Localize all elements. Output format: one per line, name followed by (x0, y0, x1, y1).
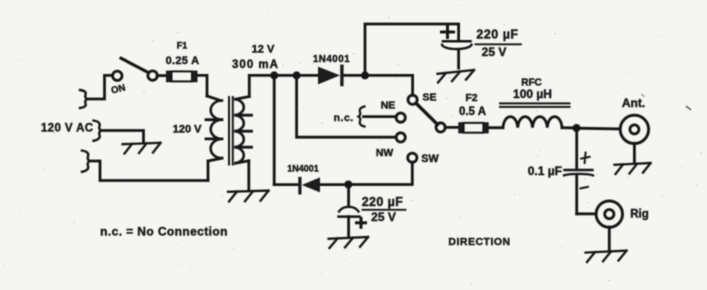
wire (101, 131, 144, 143)
diode D1 1N4001 (318, 65, 344, 87)
switch S2 terminal NW (396, 133, 405, 142)
svg-text:F1: F1 (177, 41, 188, 51)
capacitor C1 220uF 25V (442, 41, 472, 68)
transformer T1 secondary winding (236, 75, 252, 189)
wire (577, 127, 621, 130)
svg-text:Ant.: Ant. (622, 96, 645, 110)
ground (Rig) (586, 251, 627, 262)
svg-text:25 V: 25 V (482, 45, 507, 59)
ground (transformer secondary) (228, 191, 269, 202)
switch S2 terminal SW (408, 153, 417, 162)
switch S1 terminal A (113, 71, 122, 80)
AC plug prong (hot) (80, 90, 87, 108)
node (junction to NW wire) (293, 71, 301, 79)
svg-text:SE: SE (422, 92, 436, 104)
wire (344, 74, 412, 77)
svg-text:300 mA: 300 mA (232, 59, 279, 71)
node (junction to negative rectifier) (270, 71, 278, 79)
C3 polarity mark plus (581, 153, 589, 163)
svg-text:n.c.: n.c. (334, 112, 354, 124)
transformer T1 core (229, 97, 233, 165)
transformer T1 primary winding (206, 101, 222, 181)
wire (Rig stem) (608, 227, 611, 251)
switch S1 terminal B (148, 71, 157, 80)
connector J1 Ant (620, 115, 648, 143)
svg-text:1N4001: 1N4001 (313, 54, 350, 65)
svg-text:25 V: 25 V (371, 210, 396, 224)
inductor RFC 100uH (500, 103, 570, 127)
node (antenna junction) (573, 124, 581, 132)
ground (AC input) (123, 143, 161, 154)
wire (87, 75, 113, 99)
wire (secondary top rail) (249, 74, 318, 77)
fuse F2 (458, 122, 488, 133)
svg-text:Rig: Rig (630, 209, 649, 221)
wire (pole to F2) (445, 126, 458, 129)
ground (Ant) (615, 163, 651, 174)
wire (297, 75, 397, 137)
wire (Ant stem) (633, 143, 636, 162)
wire (489, 126, 503, 129)
svg-text:n.c. = No Connection: n.c. = No Connection (100, 225, 228, 239)
switch S2 pole (436, 123, 445, 132)
svg-text:NE: NE (381, 100, 396, 112)
svg-text:120 V: 120 V (173, 124, 202, 136)
svg-text:F2: F2 (465, 92, 477, 104)
capacitor C2 plus sign (357, 218, 366, 227)
svg-text:100 µH: 100 µH (513, 87, 552, 101)
switch S2 terminal NE (396, 113, 405, 122)
C3 polarity mark minus (581, 187, 589, 189)
capacitor C2 220uF 25V (negative rail) (339, 185, 360, 237)
AC plug prong (bottom) (82, 151, 90, 172)
wire (273, 75, 276, 184)
svg-text:0.5 A: 0.5 A (459, 106, 486, 118)
svg-text:220 µF: 220 µF (476, 28, 518, 42)
scan speck (642, 95, 644, 97)
AC plug prong (neutral/mid) (94, 121, 102, 141)
svg-text:0.1 µF: 0.1 µF (528, 164, 562, 178)
svg-text:1N4001: 1N4001 (287, 164, 319, 174)
fuse F1 (166, 71, 198, 83)
svg-text:ON: ON (110, 82, 127, 96)
capacitor C1 220uF plus sign (442, 27, 454, 38)
svg-text:0.25 A: 0.25 A (166, 55, 200, 67)
switch S2 terminal SE (408, 95, 417, 104)
svg-text:12 V: 12 V (252, 44, 275, 56)
svg-text:120 V AC: 120 V AC (41, 123, 94, 135)
diode D2 1N4001 (274, 177, 348, 195)
switch S2 wiper arm (416, 103, 438, 124)
wire (SE drop) (411, 75, 414, 95)
wire (198, 75, 208, 96)
ground (C2) (329, 237, 369, 248)
switch S1 arm (121, 58, 148, 72)
node (positive output junction) (361, 71, 369, 79)
svg-text:DIRECTION: DIRECTION (448, 236, 510, 248)
scan speck (687, 107, 691, 110)
wire (up to filter cap rail) (365, 24, 459, 75)
ground (C1) (438, 70, 475, 83)
svg-text:NW: NW (376, 148, 394, 159)
wire (90, 161, 209, 181)
svg-text:220 µF: 220 µF (362, 195, 404, 209)
wire (157, 74, 166, 77)
node (negative output junction) (344, 181, 352, 189)
wire (562, 126, 577, 129)
capacitor C3 0.1uF (564, 128, 596, 214)
svg-text:SW: SW (421, 153, 439, 165)
connector J2 Rig (596, 201, 622, 227)
n.c. stub on NE (359, 107, 397, 127)
wire (SW to negative rail) (348, 162, 412, 184)
